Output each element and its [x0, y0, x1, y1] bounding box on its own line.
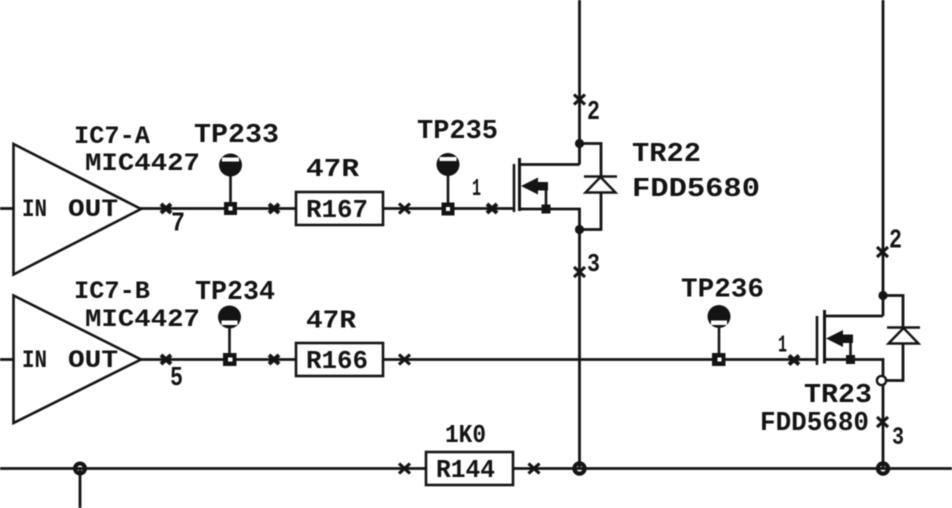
svg-text:TP233: TP233 — [194, 121, 279, 151]
resistor R166 body — [296, 343, 383, 376]
transistor Q TR22 body link — [545, 188, 548, 209]
svg-text:1K0: 1K0 — [445, 420, 486, 450]
svg-text:3: 3 — [892, 423, 904, 452]
svg-text:TP236: TP236 — [681, 276, 764, 306]
svg-text:FDD5680: FDD5680 — [760, 409, 869, 439]
net marker x right of R166 — [399, 355, 410, 365]
transistor Q TR23 body arrow — [826, 330, 853, 347]
svg-text:2: 2 — [889, 227, 902, 257]
svg-text:47R: 47R — [306, 154, 359, 184]
svg-text:MIC4427: MIC4427 — [85, 305, 200, 334]
junction donut (rail / TR22 source net) — [572, 461, 586, 475]
junction dot TR22 source node — [575, 225, 584, 234]
wire: TR23 drain vertical from top edge — [882, 0, 885, 316]
wire: TR23 drain link — [825, 315, 884, 318]
transistor Q TR22 channel bar — [518, 158, 521, 211]
svg-text:7: 7 — [171, 210, 185, 240]
op-amp U IC7-A driver triangle — [14, 144, 142, 275]
svg-text:1: 1 — [472, 176, 481, 203]
net marker x right of R144 — [529, 464, 540, 474]
svg-text:TP235: TP235 — [417, 117, 498, 147]
diode D TR22 body diode — [584, 177, 617, 193]
svg-text:FDD5680: FDD5680 — [632, 175, 760, 205]
net marker x before TR23 gate pin 1 — [789, 356, 799, 365]
wire: drop from rail donut to bottom edge — [79, 470, 82, 508]
test point TP233 symbol — [219, 154, 242, 216]
test point TP236 symbol — [708, 305, 731, 366]
wire: TR23 body diode branch — [883, 296, 903, 381]
svg-text:IN: IN — [22, 195, 47, 224]
wire: IC7-A input stub — [0, 207, 14, 210]
transistor Q TR22 body arrow — [521, 178, 548, 195]
wire: TR23 source below circle to rail — [882, 385, 885, 468]
svg-text:OUT: OUT — [68, 195, 118, 224]
net marker x left of R144 — [399, 464, 410, 474]
transistor Q TR22 gate bar — [513, 164, 516, 212]
junction dot TR22 body-source — [542, 205, 551, 214]
pin marker x TR23 source pin 3 — [877, 417, 888, 427]
wire: IC7-B input stub — [0, 358, 14, 361]
svg-text:2: 2 — [587, 98, 600, 128]
net marker x before TR22 gate pin 1 — [487, 204, 497, 213]
svg-text:IN: IN — [22, 346, 47, 375]
junction dot TR22 drain node — [575, 139, 584, 148]
svg-text:R166: R166 — [306, 346, 368, 376]
svg-text:MIC4427: MIC4427 — [85, 149, 200, 178]
test point TP234 symbol — [218, 306, 241, 367]
svg-text:47R: 47R — [306, 306, 356, 336]
junction donut (rail / TR23 source net) — [876, 461, 890, 475]
svg-text:5: 5 — [170, 364, 183, 394]
svg-text:IC7-A: IC7-A — [74, 122, 150, 151]
svg-text:TP234: TP234 — [195, 278, 275, 308]
wire: bottom rail — [0, 467, 952, 470]
wire: TR22 body diode branch — [580, 144, 602, 230]
wire: TR23 source link — [825, 360, 884, 376]
pin marker x TR22 drain pin 2 — [574, 95, 585, 105]
resistor R144 body — [426, 452, 513, 485]
junction dot TR23 body-source — [846, 355, 855, 364]
svg-text:1: 1 — [778, 333, 787, 360]
svg-text:TR22: TR22 — [632, 140, 701, 170]
junction donut (rail / drop to bottom edge) — [73, 462, 87, 476]
svg-text:IC7-B: IC7-B — [74, 277, 150, 306]
node: TR23 source open connector circle — [877, 376, 886, 385]
wire: IC7-B output to TR23 gate — [140, 358, 817, 361]
wire: TR22 drain link — [519, 163, 580, 166]
net marker x between TP233 and R167 — [269, 204, 279, 213]
transistor Q TR23 body link — [849, 340, 852, 360]
wire: IC7-A output to TR22 gate — [140, 207, 514, 210]
pin marker x TR23 drain pin 2 — [877, 247, 888, 257]
junction dot TR23 drain node — [878, 291, 887, 300]
net marker x on IC7-A output near pin 7 — [161, 204, 171, 213]
resistor R167 body — [296, 192, 383, 225]
svg-text:OUT: OUT — [68, 346, 118, 375]
net marker x on IC7-B output near pin 5 — [161, 355, 171, 364]
transistor Q TR23 channel bar — [823, 310, 826, 364]
diode D TR23 body diode — [887, 328, 920, 344]
net marker x right of R167 — [399, 204, 410, 214]
test point TP235 symbol — [437, 153, 460, 216]
net marker x between TP234 and R166 — [269, 355, 279, 364]
wire: TR22 drain vertical from top edge — [578, 0, 581, 165]
svg-text:R167: R167 — [306, 195, 368, 225]
svg-text:TR23: TR23 — [804, 381, 872, 411]
svg-text:3: 3 — [587, 249, 600, 279]
wire: TR22 source link and vertical to rail — [519, 209, 580, 469]
transistor Q TR23 gate bar — [816, 316, 819, 365]
svg-text:R144: R144 — [436, 455, 495, 485]
pin marker x TR22 source pin 3 — [574, 267, 585, 277]
op-amp U IC7-B driver triangle — [14, 296, 142, 424]
